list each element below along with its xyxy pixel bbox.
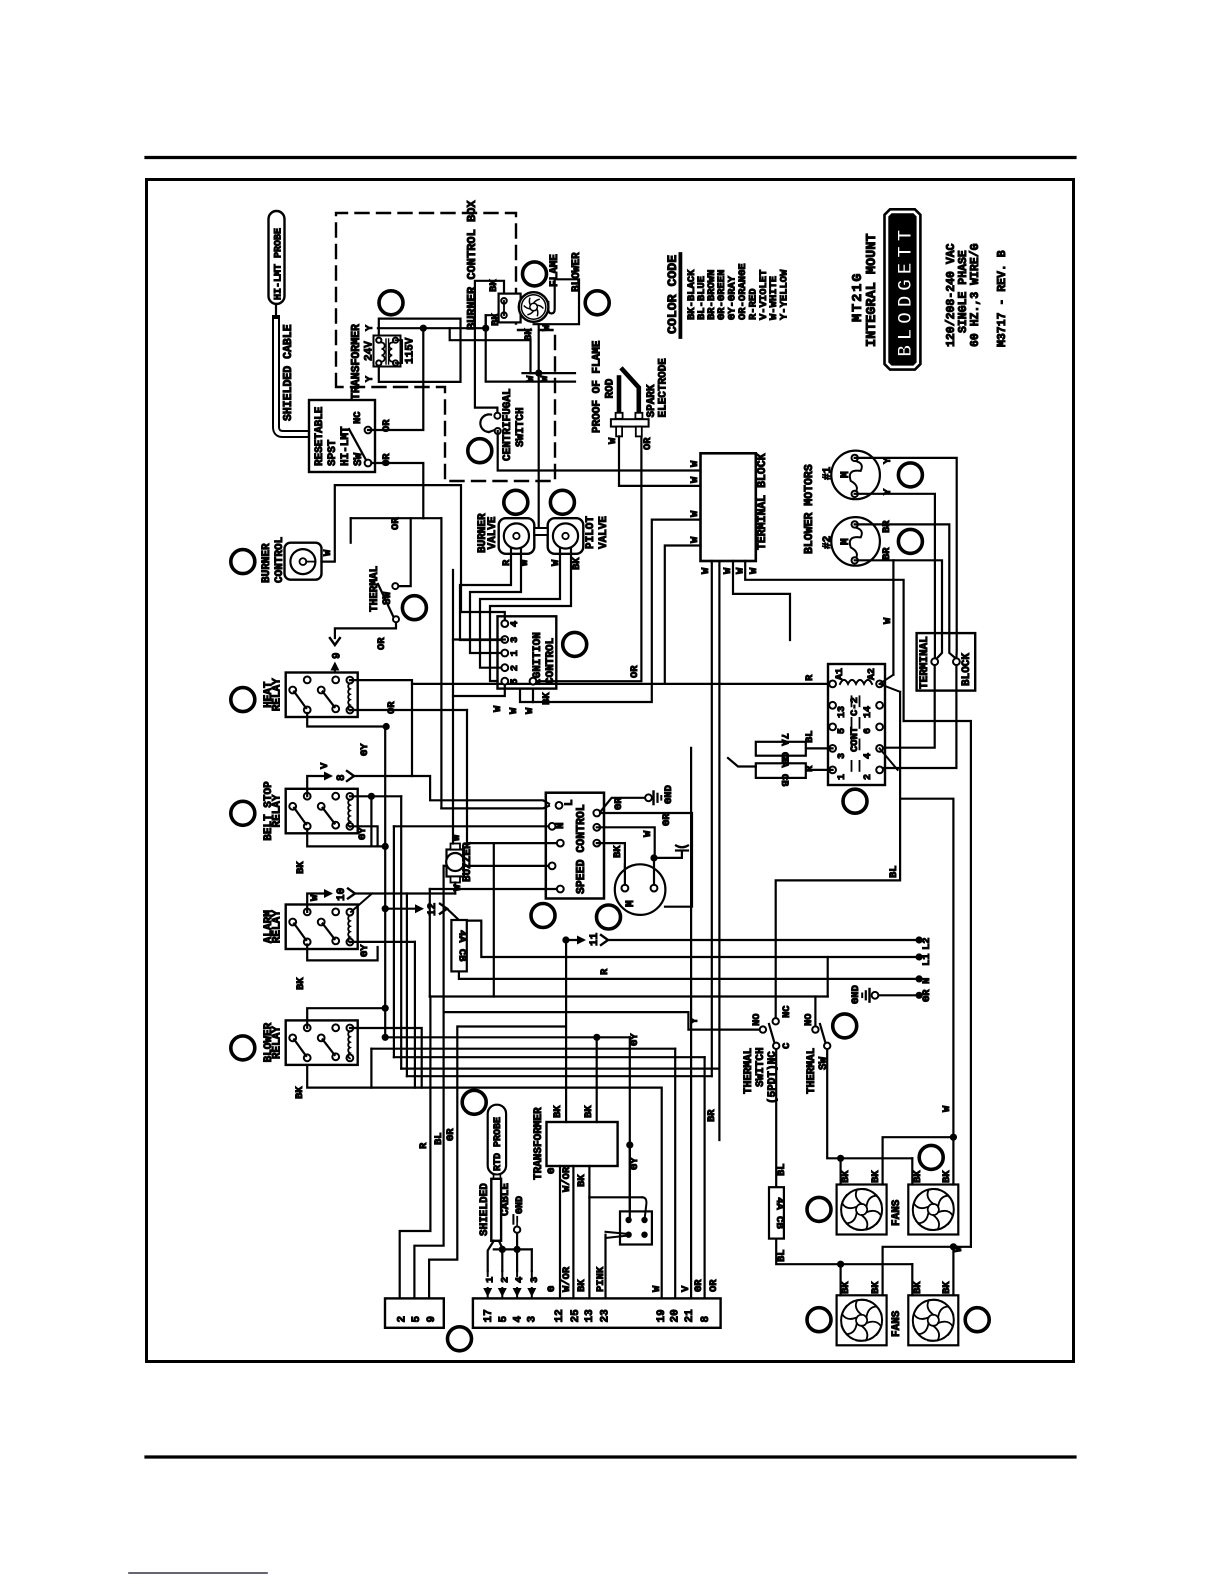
ring — [531, 904, 555, 928]
svg-text:GY: GY — [359, 944, 371, 957]
wire buzzer bottom to ref10 line — [454, 883, 456, 894]
wire GR to GND — [600, 798, 645, 812]
svg-text:BL: BL — [888, 865, 900, 878]
wire mesh line to thermal switch NO — [430, 995, 828, 997]
svg-text:BK: BK — [552, 1105, 564, 1118]
svg-text:BK: BK — [912, 1281, 924, 1294]
wire OR loop to thermal switch — [351, 517, 424, 519]
terminal strip — [473, 1298, 721, 1327]
svg-text:W: W — [508, 707, 520, 714]
wire GR to box259 — [429, 1027, 457, 1299]
svg-text:M: M — [840, 471, 852, 478]
svg-text:5: 5 — [498, 1316, 510, 1323]
T2 bottom leads — [559, 1166, 561, 1298]
svg-text:6: 6 — [863, 728, 874, 734]
buzzer — [447, 850, 465, 877]
svg-text:14: 14 — [863, 706, 874, 718]
svg-text:11: 11 — [589, 932, 601, 946]
RTD probe — [488, 1105, 506, 1175]
wire BR from terminal block — [718, 561, 720, 1140]
ring — [231, 1036, 255, 1060]
svg-text:N: N — [555, 822, 567, 829]
svg-text:1: 1 — [485, 1277, 497, 1283]
wire motor2 top BR — [855, 524, 958, 660]
wire belt coil top to mesh — [350, 795, 401, 797]
ring — [379, 291, 403, 315]
T2 BK leads up — [565, 940, 567, 1122]
terminal block right — [917, 633, 976, 691]
svg-text:CABLE: CABLE — [500, 1183, 512, 1216]
svg-text:VALVE: VALVE — [598, 516, 610, 549]
svg-text:SPARK: SPARK — [646, 384, 658, 417]
wire ignition pin4 to W riser — [461, 612, 505, 620]
wire L pair second from OR bus — [423, 517, 441, 519]
wire GR to ground — [879, 994, 920, 996]
svg-text:BL: BL — [776, 1249, 788, 1262]
wire pin3 BK to motor — [597, 843, 625, 885]
ref 11 — [566, 939, 583, 941]
relay BLOWER RELAY — [286, 1020, 358, 1065]
burner control — [285, 543, 322, 580]
Blodgett logo — [885, 209, 921, 369]
svg-text:17: 17 — [483, 1309, 495, 1322]
svg-text:VALVE: VALVE — [487, 516, 499, 549]
svg-text:C: C — [781, 1042, 793, 1049]
svg-text:SWITCH: SWITCH — [515, 407, 527, 447]
svg-text:BLOWER: BLOWER — [571, 252, 583, 292]
svg-text:CENTRIFUGAL: CENTRIFUGAL — [502, 388, 514, 461]
svg-text:115V: 115V — [405, 337, 417, 364]
svg-text:W: W — [953, 1245, 965, 1252]
svg-text:BK: BK — [912, 1170, 924, 1183]
centrifugal switch — [480, 414, 491, 432]
wire speed control N — [394, 825, 552, 827]
svg-text:W: W — [941, 1105, 953, 1112]
wire ref 12 — [385, 908, 421, 910]
wire BK connector top to centrifugal — [475, 281, 504, 416]
svg-text:RTD PROBE: RTD PROBE — [493, 1117, 504, 1171]
svg-text:CONT: CONT — [849, 727, 861, 752]
svg-text:BLODGETT: BLODGETT — [895, 225, 918, 357]
svg-text:W: W — [642, 830, 654, 837]
ring — [231, 801, 255, 825]
svg-text:SPEED CONTROL: SPEED CONTROL — [575, 804, 588, 894]
wire contactor pin4 diag — [880, 748, 898, 770]
wire A2 to motor BR tap — [880, 675, 894, 684]
wire motor2 bottom BR — [855, 560, 942, 659]
valve link — [534, 528, 547, 535]
svg-text:INTEGRAL MOUNT: INTEGRAL MOUNT — [865, 234, 880, 347]
wire TB2 down to contactor pins — [883, 665, 935, 748]
ring — [807, 1308, 831, 1332]
wire BK bus across burner box — [378, 327, 486, 329]
svg-text:25: 25 — [570, 1309, 582, 1323]
svg-text:W: W — [309, 894, 321, 901]
terminal block left lower wires — [665, 546, 701, 684]
svg-text:W: W — [689, 536, 701, 543]
page top rule — [146, 156, 1075, 159]
thermal switch SW lower — [820, 1024, 826, 1043]
svg-text:GY: GY — [629, 1033, 641, 1046]
ring — [843, 789, 867, 813]
burner control box dashed outline — [336, 213, 555, 481]
svg-text:CONTROL: CONTROL — [545, 637, 557, 684]
wire speed control pin5 — [430, 888, 561, 890]
connector wires — [629, 1145, 631, 1220]
svg-text:BL: BL — [804, 730, 816, 743]
wire GR loop right — [600, 813, 692, 907]
wire mesh line j — [407, 1075, 712, 1077]
svg-text:BK: BK — [576, 1174, 588, 1187]
svg-text:W: W — [735, 567, 747, 574]
svg-text:GR: GR — [921, 989, 933, 1002]
svg-text:BUZZER: BUZZER — [462, 842, 474, 882]
svg-text:5: 5 — [837, 728, 848, 734]
svg-text:L1: L1 — [921, 953, 933, 966]
transformer T1 — [374, 336, 401, 367]
svg-text:TRANSFORMER: TRANSFORMER — [350, 324, 363, 400]
ignition control — [498, 616, 557, 688]
wire speed control pin4 — [444, 865, 552, 867]
wire diag to alarm coil — [351, 894, 372, 912]
svg-text:RESETABLE: RESETABLE — [314, 406, 326, 466]
svg-text:W: W — [722, 567, 734, 574]
page bottom rule — [146, 1455, 1075, 1458]
ring — [231, 688, 255, 712]
resetable hi-limit switch — [309, 400, 375, 472]
wire OR from hi-limit lower contact — [371, 463, 423, 518]
svg-text:BK: BK — [523, 328, 535, 341]
relay BELT STOP RELAY — [286, 789, 358, 834]
wire A2 down BL — [880, 684, 901, 692]
svg-text:4A CB: 4A CB — [456, 930, 468, 962]
wire blower relay top — [307, 1008, 385, 1028]
wire into 7A CB 2 diag — [728, 758, 756, 767]
svg-text:THERMAL: THERMAL — [369, 565, 381, 612]
svg-text:V: V — [319, 762, 331, 769]
wire thermal2 C to fans row1 — [827, 1049, 912, 1158]
svg-text:10: 10 — [336, 888, 348, 901]
svg-text:NO: NO — [803, 1013, 815, 1026]
wire GY drop to connector — [629, 1037, 631, 1211]
svg-text:BLOCK: BLOCK — [961, 653, 973, 686]
svg-text:M: M — [840, 538, 852, 545]
svg-text:GR: GR — [445, 1128, 457, 1141]
svg-text:BURNER: BURNER — [261, 543, 273, 583]
thermal switch SW upper — [378, 584, 394, 617]
circuit breaker 4A CB no.1 — [451, 920, 466, 971]
svg-text:OR: OR — [629, 665, 641, 678]
wire ref8 to speed control L — [354, 776, 549, 804]
svg-text:BK: BK — [840, 1170, 852, 1183]
svg-text:BK: BK — [490, 313, 502, 326]
svg-text:BK: BK — [295, 977, 307, 990]
fan row1 right — [908, 1185, 958, 1235]
svg-text:3: 3 — [529, 1277, 541, 1283]
wire bus L2 line from ref 11 — [608, 939, 919, 941]
svg-text:TRANSFORMER: TRANSFORMER — [533, 1107, 545, 1180]
wire blower relay loop W to terminal 19 — [307, 1065, 662, 1299]
svg-text:2: 2 — [509, 665, 521, 671]
svg-text:SHIELDED CABLE: SHIELDED CABLE — [282, 324, 295, 421]
svg-text:12: 12 — [427, 903, 439, 916]
svg-text:13: 13 — [837, 706, 848, 718]
svg-text:W: W — [689, 510, 701, 517]
svg-text:W: W — [689, 476, 701, 483]
svg-text:W/OR: W/OR — [561, 1266, 573, 1292]
svg-text:9: 9 — [426, 1316, 438, 1323]
svg-text:BL: BL — [433, 1132, 445, 1145]
svg-text:BK: BK — [612, 845, 624, 858]
wire ref10 onward — [355, 892, 455, 894]
circuit breaker 7A CB no.1 — [756, 742, 806, 756]
electrode holder — [616, 413, 623, 419]
svg-text:G: G — [546, 1168, 558, 1174]
burner valve — [499, 518, 535, 554]
svg-text:4: 4 — [513, 1316, 525, 1323]
wire W row2 — [953, 1246, 971, 1248]
svg-text:ROD: ROD — [605, 378, 617, 398]
transformer T2 — [547, 1122, 618, 1166]
svg-text:GY: GY — [359, 743, 371, 756]
wire pin2 W to capacitor junction — [597, 827, 655, 858]
fan row2 feeds — [839, 1264, 841, 1295]
wire ignition pin3 — [453, 570, 505, 640]
wire mesh line h — [394, 1056, 705, 1058]
terminal box 2 5 9 — [385, 1298, 444, 1327]
svg-text:20: 20 — [670, 1309, 682, 1322]
spark electrode — [623, 370, 639, 413]
wire thermal to ref 9 — [335, 623, 396, 638]
svg-text:OR: OR — [386, 701, 398, 714]
circuit breaker 7A CB no.2 — [756, 763, 806, 778]
svg-text:SW: SW — [382, 591, 394, 605]
terminal block bottom wires — [711, 561, 713, 1076]
wire W from blower down — [538, 324, 540, 373]
wire W from flame rod to terminal block — [619, 436, 701, 486]
svg-text:R: R — [804, 674, 816, 681]
svg-text:3: 3 — [837, 753, 848, 759]
svg-text:GR: GR — [693, 1279, 705, 1292]
svg-text:W: W — [539, 375, 551, 382]
wire mesh GY line — [385, 1036, 630, 1038]
svg-text:7A CB: 7A CB — [778, 755, 790, 787]
svg-text:W: W — [700, 567, 712, 574]
wire pilot valve leads — [480, 549, 560, 668]
wire heat relay bottom loop — [307, 713, 386, 727]
power terminals — [916, 936, 923, 943]
svg-text:NO: NO — [751, 1013, 763, 1026]
svg-text:3: 3 — [509, 637, 521, 643]
svg-text:2: 2 — [499, 1277, 511, 1283]
wire bus R/N line from 4A CB to N terminal — [459, 971, 919, 979]
svg-text:R: R — [599, 968, 611, 975]
ring — [807, 1197, 831, 1221]
svg-text:GND: GND — [515, 1196, 526, 1214]
ring — [231, 550, 255, 574]
svg-text:M: M — [625, 900, 637, 907]
svg-text:BLOWER MOTORS: BLOWER MOTORS — [803, 464, 816, 554]
wire contactor pin1 to 7A CB2 — [806, 769, 833, 771]
wire from centrifugal C to terminal block — [498, 431, 701, 471]
svg-text:TERMINAL: TERMINAL — [919, 636, 931, 689]
svg-text:BK: BK — [583, 1105, 595, 1118]
flame blower connector — [499, 294, 521, 323]
RTD cable — [494, 1175, 501, 1179]
ground symbol — [652, 792, 654, 805]
svg-text:SHIELDED: SHIELDED — [479, 1183, 491, 1236]
svg-text:Y: Y — [689, 1017, 701, 1024]
svg-text:BK: BK — [571, 557, 583, 570]
wire BK to terminal block W pin — [533, 520, 701, 702]
wire drop to thermal sw2 NO — [814, 997, 816, 1030]
svg-text:12: 12 — [554, 1309, 566, 1322]
connector 4 pin — [620, 1211, 652, 1244]
wire 4A CB2 bottom BL bus — [776, 1239, 912, 1265]
svg-text:FANS: FANS — [891, 1310, 903, 1337]
svg-text:19: 19 — [656, 1309, 668, 1322]
wire W from burner control to ignition — [322, 485, 462, 612]
hi-limit switch contacts — [349, 429, 366, 460]
svg-text:GR: GR — [661, 813, 673, 826]
fan row1 left — [837, 1185, 887, 1235]
wire probe to cable — [275, 304, 277, 319]
wire mesh line g — [371, 1048, 675, 1050]
svg-text:NC: NC — [352, 411, 364, 424]
wire 115V jog to centrifugal area — [450, 328, 539, 373]
svg-text:W/OR: W/OR — [561, 1166, 573, 1192]
svg-text:9: 9 — [332, 652, 344, 659]
wire mesh verticals left — [370, 1049, 372, 1088]
wire burner valve leads — [460, 549, 511, 640]
svg-text:5: 5 — [509, 678, 521, 684]
blower motor no.1 — [831, 451, 880, 500]
ring — [504, 490, 528, 514]
pilot valve — [548, 518, 584, 554]
svg-text:BR: BR — [706, 1109, 718, 1122]
ring — [462, 1090, 486, 1114]
wire riser thermal to L1 line — [827, 957, 829, 997]
wire belt relay bottom loop — [307, 829, 385, 846]
ref 8 from belt stop relay — [307, 776, 330, 796]
svg-text:NC: NC — [781, 1005, 793, 1018]
svg-text:60 HZ.,3 WIRE/G: 60 HZ.,3 WIRE/G — [969, 243, 982, 347]
ground symbol — [868, 989, 870, 1002]
svg-text:3: 3 — [527, 1316, 539, 1323]
svg-text:BK: BK — [941, 1170, 953, 1183]
svg-text:1: 1 — [509, 650, 521, 656]
svg-text:W: W — [541, 324, 553, 331]
svg-text:OR: OR — [642, 437, 654, 450]
wire BK connector bottom — [486, 315, 575, 381]
svg-text:THERMAL: THERMAL — [743, 1047, 755, 1094]
svg-text:W: W — [882, 617, 894, 624]
wire buzzer top from ignition — [452, 696, 454, 844]
wire mesh line e — [458, 1025, 566, 1027]
svg-text:Y: Y — [365, 325, 376, 331]
svg-text:W: W — [452, 884, 464, 891]
svg-text:BURNER CONTROL BOX: BURNER CONTROL BOX — [465, 200, 479, 330]
svg-text:V: V — [680, 1285, 692, 1292]
relay HEAT RELAY — [286, 673, 358, 718]
svg-text:R: R — [418, 1142, 430, 1149]
wire heat relay coil bottom — [350, 709, 467, 711]
svg-text:FLAME: FLAME — [549, 254, 561, 287]
wire mesh line d Y — [444, 1012, 763, 1030]
ring — [468, 439, 492, 463]
wire speed control pin3 — [467, 842, 560, 844]
wire thermal1 C to 4A CB2 BL — [775, 1049, 777, 1187]
svg-text:W: W — [651, 1285, 663, 1292]
svg-text:Y-YELLOW: Y-YELLOW — [779, 269, 791, 320]
svg-text:CONTROL: CONTROL — [274, 536, 286, 583]
svg-text:4A CB: 4A CB — [773, 1197, 785, 1229]
svg-text:W: W — [524, 707, 536, 714]
speed control motor — [615, 864, 666, 915]
ring — [833, 1014, 857, 1038]
wire heat relay coil R line to contactor A1 — [350, 680, 833, 684]
svg-text:1: 1 — [837, 774, 848, 780]
flame blower fan — [519, 292, 549, 322]
svg-text:W: W — [748, 567, 760, 574]
svg-text:W: W — [607, 437, 619, 444]
svg-text:BK: BK — [294, 1086, 306, 1099]
svg-text:#2: #2 — [822, 536, 834, 549]
svg-text:4: 4 — [514, 1277, 526, 1283]
svg-text:W: W — [689, 460, 701, 467]
svg-text:BK: BK — [295, 861, 307, 874]
ring — [523, 262, 547, 286]
svg-text:4: 4 — [509, 621, 521, 627]
wire mesh line i — [401, 1067, 719, 1069]
svg-text:PILOT: PILOT — [585, 516, 597, 549]
svg-text:R: R — [804, 765, 816, 772]
transformer T1 wiring loop — [379, 319, 461, 382]
HI-LMT probe — [269, 211, 285, 304]
ring — [402, 596, 426, 620]
svg-text:OR: OR — [708, 1279, 720, 1292]
svg-text:ELECTRODE: ELECTRODE — [658, 358, 670, 418]
svg-text:N: N — [921, 978, 933, 984]
ring — [563, 632, 587, 656]
wire OR from hi-limit NC to BK bus — [368, 328, 423, 430]
wire alarm relay bottom loop — [307, 945, 377, 961]
svg-text:TERMINAL BLOCK: TERMINAL BLOCK — [756, 453, 769, 550]
svg-text:BR: BR — [881, 547, 893, 560]
drawing frame — [147, 180, 1074, 1362]
fan row2 left — [837, 1295, 887, 1345]
ref 10 from alarm relay — [307, 894, 330, 912]
wire belt coil bottom to loop — [350, 826, 378, 846]
contactor CONT C-2 — [828, 664, 885, 785]
fan row2 right — [908, 1295, 958, 1345]
svg-text:SPST: SPST — [327, 439, 339, 466]
blower motor no.2 — [831, 517, 880, 566]
svg-text:A1: A1 — [835, 668, 846, 680]
svg-text:8: 8 — [700, 1316, 712, 1323]
svg-text:C-2: C-2 — [849, 697, 861, 716]
svg-text:G: G — [546, 1286, 558, 1292]
wire right bus to fans — [904, 721, 971, 1247]
svg-text:BK: BK — [576, 1279, 588, 1292]
svg-text:GND: GND — [663, 785, 675, 804]
flame blower housing — [534, 279, 579, 324]
wire alarm coil bottom to mesh — [350, 941, 415, 943]
svg-text:SWITCH: SWITCH — [755, 1047, 767, 1087]
wire contactor pin3 to 7A CB1 — [806, 747, 833, 749]
wire BL to box259 — [414, 1012, 443, 1298]
ref 9 — [330, 638, 340, 645]
